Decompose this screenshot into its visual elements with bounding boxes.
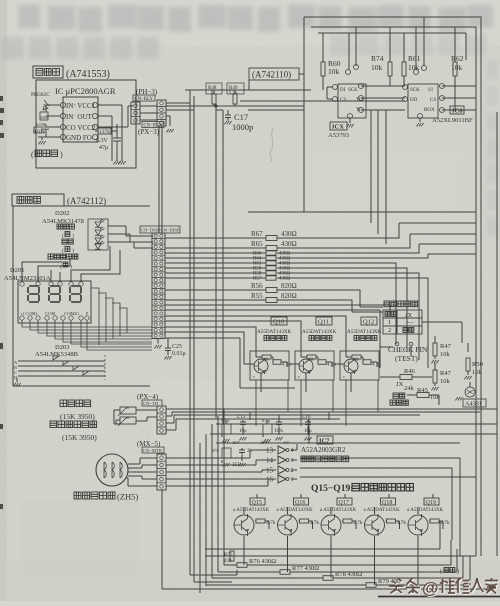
scan edge fragments — [0, 96, 4, 509]
wire Q10 down — [256, 380, 288, 426]
capacitor receiver c2 — [43, 124, 49, 132]
svg-text:C13M: C13M — [45, 311, 56, 316]
wire main board top frame mid — [311, 27, 476, 556]
transistor A4381 — [465, 387, 475, 397]
svg-text:Q19: Q19 — [426, 500, 436, 506]
transistor Q11 — [299, 359, 313, 373]
svg-text:a A55DAT143XK: a A55DAT143XK — [277, 508, 314, 513]
wire 7seg nest risers — [91, 288, 127, 345]
connector MX-5 strip — [157, 454, 166, 490]
capacitor C25 — [167, 339, 169, 347]
svg-text:R61: R61 — [408, 54, 421, 63]
svg-text:JX: JX — [396, 381, 404, 388]
svg-text:GND FO: GND FO — [66, 134, 92, 142]
label Q16 — [294, 498, 309, 505]
label sleep yellow — [62, 239, 67, 244]
wire disp row332 — [165, 332, 250, 364]
svg-text:C13M2G: C13M2G — [64, 311, 79, 316]
wire Q19 — [418, 507, 443, 589]
wire IC row2 — [361, 97, 476, 99]
svg-text:Q12: Q12 — [363, 319, 374, 326]
svg-text:0.056: 0.056 — [36, 122, 47, 127]
motor ZH5 — [96, 454, 128, 486]
led D202-1 — [95, 219, 104, 227]
wire cross y434 — [210, 433, 497, 435]
capacitor receiver c3 — [34, 127, 42, 133]
label IC6 A53793 — [330, 122, 347, 130]
wire 7seg top wires — [22, 262, 62, 281]
transistor Q16 — [278, 515, 298, 535]
led D202-3 — [95, 235, 104, 243]
wire thermistor wires — [114, 410, 157, 424]
svg-text:CN−MTR: CN−MTR — [143, 448, 163, 453]
svg-text:820Ω: 820Ω — [281, 282, 297, 290]
ground IC A52XL9011BF — [416, 123, 423, 126]
svg-text:10k: 10k — [451, 63, 463, 72]
resistor R48 — [213, 90, 215, 94]
svg-text:JX: JX — [405, 312, 413, 319]
connector PX-4 strip — [157, 406, 166, 434]
transistor Q10 — [254, 359, 268, 373]
svg-text:Q15: Q15 — [252, 500, 262, 506]
connector PH-3 strip — [131, 102, 140, 124]
wire led wires — [108, 226, 153, 248]
wire Q12 down — [346, 380, 378, 426]
resistor R65 — [266, 246, 277, 251]
svg-text:Q10: Q10 — [273, 319, 284, 326]
label Q15 — [250, 498, 265, 505]
wire receiver right vert — [98, 105, 122, 161]
svg-text:0.01μ: 0.01μ — [33, 129, 46, 135]
svg-text:c: c — [343, 374, 345, 379]
svg-text:PH302C: PH302C — [31, 92, 50, 98]
wire IC A52XL9011BF top pins — [416, 17, 424, 70]
resistor R67 — [266, 236, 277, 241]
resistor Q16 4.7k — [300, 519, 309, 523]
resistor Q19 4.7k — [430, 519, 439, 523]
wire A742110 frame — [249, 74, 304, 90]
svg-text:R65: R65 — [251, 240, 263, 248]
wire gates left — [166, 450, 276, 486]
resistor R55 — [266, 298, 277, 303]
svg-text:10k: 10k — [328, 67, 340, 76]
driver block Q10 box — [250, 351, 289, 380]
wire R60 drop — [322, 33, 324, 90]
svg-text:A53793: A53793 — [328, 132, 349, 139]
svg-text:SCK: SCK — [410, 88, 420, 93]
svg-text:0.1μ: 0.1μ — [221, 418, 230, 423]
svg-text:0.01μ: 0.01μ — [172, 351, 186, 357]
wire CN-DISP gnd — [157, 339, 159, 344]
wire table out — [422, 322, 462, 343]
svg-text:10k: 10k — [263, 356, 269, 361]
wire bottom verticals — [200, 409, 224, 593]
svg-text:3: 3 — [291, 458, 294, 464]
resistor Q12 base — [352, 355, 361, 359]
svg-text:5.1k: 5.1k — [229, 89, 238, 94]
wire IC A53793 left loop — [327, 87, 332, 99]
thermistor TH2 — [120, 417, 136, 424]
node junction x216 — [215, 105, 217, 107]
svg-text:IC8: IC8 — [452, 108, 463, 115]
connector PX-3 strip — [157, 100, 166, 126]
label IC7 box — [317, 436, 333, 444]
wire bus y556 — [205, 555, 476, 557]
resistor R49 — [234, 90, 236, 94]
diode D203-1 — [53, 356, 59, 360]
svg-text:(: ( — [31, 150, 34, 159]
wire bottom bus 0 — [205, 548, 440, 550]
svg-text:): ) — [457, 568, 459, 575]
svg-text:C15: C15 — [237, 415, 246, 420]
ground IC A53793 — [346, 124, 353, 127]
svg-text:430Ω: 430Ω — [281, 230, 297, 238]
resistor R64 row wire — [165, 254, 476, 258]
wire r45 — [429, 395, 439, 405]
svg-text:CO VCC2: CO VCC2 — [66, 124, 96, 132]
svg-text:CN−DISP: CN−DISP — [161, 228, 180, 233]
resistor R78 430 — [212, 577, 323, 579]
label start stop green — [48, 254, 53, 259]
wire bus y101 — [240, 100, 405, 102]
wire cross y458 — [300, 458, 460, 556]
wire disp row321 — [165, 321, 301, 351]
label CN-RLY a — [133, 95, 155, 101]
wire cross y443 — [216, 442, 460, 444]
wire long vertical b — [193, 96, 195, 582]
svg-text:1k: 1k — [210, 89, 215, 94]
svg-text:SCK: SCK — [348, 88, 358, 93]
svg-text:R56: R56 — [251, 282, 263, 290]
svg-text:137k: 137k — [99, 129, 110, 135]
svg-text:CN−TH: CN−TH — [143, 401, 159, 406]
wire elbow bus 1 — [370, 110, 372, 223]
resistor R74 — [388, 62, 392, 76]
resistor R55 row wire — [165, 300, 383, 312]
svg-text:2: 2 — [388, 327, 391, 334]
resistor Q12 4.7k — [363, 360, 371, 365]
label Q18 — [381, 498, 396, 505]
wire D203 rows — [18, 361, 105, 376]
capacitor cluster row2 — [222, 448, 231, 458]
wire IC row3 — [361, 109, 476, 111]
capacitor C17 — [227, 110, 229, 113]
transistor Q19 — [408, 515, 428, 535]
svg-text:A4381: A4381 — [465, 401, 482, 408]
resistor R67 row wire — [165, 223, 476, 238]
label Q17 — [337, 498, 352, 505]
resistor R66 — [266, 251, 276, 255]
transistor Q18 — [365, 515, 385, 535]
wire Q12 internals — [335, 351, 377, 392]
driver block Q12 box — [340, 351, 379, 380]
resistor R61 — [402, 62, 406, 76]
label CN-TH — [142, 400, 162, 406]
wire right edge vertical — [496, 112, 498, 556]
svg-text:(: ( — [62, 247, 64, 254]
svg-text:10k: 10k — [440, 351, 451, 358]
ground receiver bottom — [113, 161, 120, 164]
ground PX-3 — [166, 129, 173, 132]
display board outer box — [13, 206, 150, 386]
wire main board left vertical — [303, 17, 305, 212]
label timer orange — [57, 224, 62, 229]
svg-text:IC μPC2800AGR: IC μPC2800AGR — [55, 86, 116, 96]
resistor R62 — [453, 62, 457, 76]
svg-text:10k: 10k — [472, 369, 483, 376]
svg-text:DD: DD — [410, 98, 418, 103]
wire cross y468 — [300, 468, 452, 540]
wire cluster drops — [250, 412, 329, 444]
wire right bus crossing — [454, 98, 456, 110]
wire bottom bus 2 — [194, 581, 232, 583]
label Q19 — [424, 498, 439, 505]
svg-text:10k: 10k — [371, 63, 383, 72]
svg-text:IN+ VCC1: IN+ VCC1 — [66, 102, 96, 110]
svg-text:BOX: BOX — [424, 108, 435, 113]
wire mid vertical x223 — [216, 110, 223, 424]
svg-text:1000p: 1000p — [232, 122, 253, 132]
label IC8 — [450, 106, 464, 114]
ghost bleed-through text — [2, 5, 498, 236]
resistor R50 — [467, 343, 469, 352]
resistor R66 row wire — [165, 244, 476, 253]
svg-text:(TEST): (TEST) — [395, 354, 418, 363]
label Q11 — [316, 317, 332, 325]
diode D203-4 — [83, 371, 89, 375]
label CN-RLY b — [142, 122, 164, 128]
svg-text:430Ω: 430Ω — [279, 277, 291, 282]
svg-text:16V: 16V — [260, 440, 269, 445]
label A4381 box — [463, 399, 486, 407]
resistor Q17 4.7k — [343, 519, 352, 523]
svg-text:): ) — [60, 150, 63, 159]
watermark underline — [378, 596, 500, 598]
label CN-DISP — [140, 226, 180, 233]
resistor R64 — [266, 256, 276, 260]
wire receiver to conn — [98, 106, 133, 127]
resistor R60 — [321, 62, 325, 76]
wire D203 dash — [104, 355, 106, 380]
wire R62 drop — [454, 27, 456, 98]
svg-text:R47: R47 — [440, 343, 452, 350]
svg-text:R77 430Ω: R77 430Ω — [292, 565, 319, 572]
svg-text:(: ( — [62, 232, 64, 239]
ground D203 — [16, 378, 18, 382]
svg-text:16V: 16V — [232, 440, 241, 445]
wire IC row1 — [361, 85, 476, 87]
label remote table title — [384, 301, 390, 307]
node check pins — [395, 342, 399, 346]
thermistor TH1 — [120, 407, 136, 414]
label Q10 — [271, 317, 287, 325]
svg-text:10k: 10k — [353, 356, 359, 361]
svg-text:DI: DI — [340, 88, 346, 93]
resistor Q10 base — [262, 355, 271, 359]
svg-text:(PX−3): (PX−3) — [138, 128, 160, 136]
svg-text:ICX: ICX — [332, 124, 344, 131]
svg-text:a A55DAT143XK: a A55DAT143XK — [233, 508, 270, 513]
svg-text:C25: C25 — [172, 344, 182, 350]
svg-text:(A742110): (A742110) — [252, 70, 291, 80]
svg-text:430Ω: 430Ω — [281, 240, 297, 248]
label receiver box — [33, 66, 63, 78]
led D202-2 — [95, 227, 104, 235]
transistor Q15 — [234, 515, 254, 535]
wire disp row338 — [165, 338, 295, 388]
svg-text:): ) — [72, 232, 74, 239]
svg-text:820Ω: 820Ω — [281, 292, 297, 300]
svg-text:D202: D202 — [55, 210, 69, 217]
label CN-MTR — [142, 447, 164, 453]
wire mx5 down — [161, 490, 163, 589]
display D201 7-segment — [18, 281, 91, 323]
svg-text:1: 1 — [291, 477, 294, 483]
wire px4 out bundle — [166, 409, 497, 430]
svg-text:A54LMK5348B: A54LMK5348B — [35, 351, 79, 358]
wire 7seg bottom staircase — [22, 320, 152, 350]
svg-text:(15K 3950): (15K 3950) — [60, 412, 95, 421]
wire bus y106 — [166, 105, 304, 107]
label hx temp — [50, 421, 57, 428]
resistor Q18 4.7k — [387, 519, 396, 523]
resistor R57 row wire — [165, 278, 428, 368]
svg-text:6.3V: 6.3V — [96, 138, 109, 144]
svg-text:47μ: 47μ — [99, 145, 108, 151]
wire bottom right verts — [440, 477, 481, 556]
wire main board top frame inner — [318, 32, 466, 34]
wire right edge drop — [465, 33, 467, 60]
svg-text:(: ( — [440, 568, 442, 575]
svg-text:S1: S1 — [428, 88, 434, 93]
svg-text:2: 2 — [291, 468, 294, 474]
wire check pin wires — [380, 346, 411, 368]
led D202-4 — [95, 241, 104, 249]
label A742110 — [249, 68, 299, 80]
wire vert pair to disp — [159, 126, 162, 233]
wire IC A52XL9011BF gnd stub — [419, 118, 421, 122]
label intake temp — [60, 400, 67, 407]
svg-text:R55: R55 — [251, 292, 263, 300]
wire conn bridge — [140, 103, 194, 126]
svg-text:a A55DAT143XK: a A55DAT143XK — [364, 508, 401, 513]
wire R74 drop — [389, 27, 391, 86]
wire Q10 internals — [245, 351, 287, 392]
wire elbow bus 2 — [377, 110, 379, 234]
label Q12 — [361, 317, 377, 325]
label motor ZH5 — [74, 492, 81, 499]
wire bus y90 — [185, 89, 311, 91]
wire elbow bus 3 — [385, 110, 387, 244]
ground receiver left — [38, 137, 46, 140]
resistor R46 24k — [380, 376, 400, 378]
svg-text:10k: 10k — [308, 356, 314, 361]
ground R47a — [431, 360, 438, 363]
svg-text:R46: R46 — [404, 368, 416, 375]
diode D203-2 — [63, 361, 69, 365]
svg-text:IN− OUT: IN− OUT — [66, 113, 93, 121]
capacitor receiver c1 — [40, 112, 48, 120]
svg-text:4: 4 — [291, 448, 294, 454]
receiver outer box — [36, 80, 136, 168]
op-amp U-B A52XL9011BF body — [408, 84, 438, 118]
wire long vertical a — [189, 90, 191, 575]
svg-text:R75: R75 — [224, 553, 233, 558]
wire corner x304 — [248, 110, 304, 212]
resistor Q10 4.7k — [273, 360, 281, 365]
svg-text:R45: R45 — [417, 387, 428, 394]
svg-text:R62: R62 — [451, 54, 464, 63]
svg-text:a A55DAT143XK: a A55DAT143XK — [320, 508, 357, 513]
wire cross y424 — [216, 423, 497, 425]
diode D203-3 — [73, 366, 79, 370]
svg-text:10k: 10k — [440, 378, 451, 385]
wire motor wires — [126, 458, 157, 486]
resistor R57 — [266, 276, 276, 280]
svg-text:@: @ — [422, 579, 439, 598]
svg-text:CN−RLY: CN−RLY — [135, 97, 154, 102]
resistor R59 — [266, 266, 276, 270]
resistor R45 — [407, 394, 417, 396]
resistor Q15 4.7k — [256, 519, 265, 523]
wire 137k — [95, 124, 117, 138]
wire disp row316 — [165, 316, 346, 351]
svg-text:A52XL9011BF: A52XL9011BF — [432, 117, 473, 124]
svg-text:R67: R67 — [251, 230, 263, 238]
label remote id note — [393, 393, 398, 398]
resistor Q11 base — [307, 355, 316, 359]
wire IC A53793 top pins — [349, 27, 356, 70]
capacitor 6.3V 47u — [113, 131, 121, 147]
svg-text:a A55DAT143XK: a A55DAT143XK — [407, 508, 444, 513]
resistor R47a — [434, 336, 436, 343]
svg-text:R74: R74 — [371, 54, 384, 63]
wire cross y477 — [300, 476, 476, 478]
photodiode D receiver — [43, 100, 49, 110]
resistor R56 row wire — [165, 290, 383, 307]
svg-text:0.4μ: 0.4μ — [262, 418, 271, 423]
wire q15-19 feed stubs — [257, 494, 433, 498]
svg-text:Q15−Q19:: Q15−Q19: — [311, 484, 353, 494]
svg-text:430: 430 — [224, 559, 232, 564]
wire receiver left — [46, 105, 60, 137]
scan scribble — [270, 128, 273, 162]
label motor drive — [301, 456, 307, 462]
wire Q15 — [244, 507, 269, 565]
svg-text:TI: TI — [356, 108, 361, 113]
wire R61 drop — [403, 33, 405, 86]
paper stains — [20, 150, 460, 580]
svg-text:(15K 3950): (15K 3950) — [62, 433, 97, 442]
capacitor cluster row1 — [222, 424, 231, 434]
wire Q18 — [375, 507, 400, 585]
svg-text:6V: 6V — [284, 440, 290, 445]
svg-text:A52A2003GR2: A52A2003GR2 — [301, 446, 346, 454]
resistor R79 430 — [206, 584, 366, 586]
resistor R65 row wire — [165, 234, 476, 248]
transistor Q12 — [344, 359, 358, 373]
svg-text:1: 1 — [388, 319, 391, 326]
wire mid vertical x216 — [215, 106, 217, 418]
wire Q17 — [331, 507, 356, 578]
svg-text:(A742112): (A742112) — [67, 196, 106, 206]
svg-text:24k: 24k — [404, 385, 415, 392]
resistor R76 430 — [224, 564, 237, 566]
wire bottom bus long — [162, 588, 490, 590]
wire Q11 internals — [290, 351, 332, 392]
svg-text:CS: CS — [430, 98, 436, 103]
svg-text:): ) — [72, 247, 74, 254]
